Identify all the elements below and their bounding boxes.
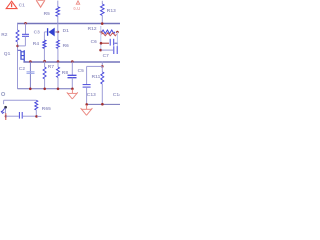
label R13: [107, 8, 116, 14]
capacitor C16 (bottom): [6, 112, 37, 119]
svg-text:R11: R11: [92, 74, 101, 80]
svg-text:R7: R7: [48, 64, 55, 70]
capacitor C6: [102, 39, 118, 46]
label R4: [33, 41, 40, 47]
resistor R8: [57, 62, 60, 89]
wire connector bottom drop: [5, 108, 7, 113]
svg-text:R13: R13: [107, 8, 116, 14]
svg-text:C14: C14: [113, 92, 120, 98]
ground (below rail C): [81, 105, 93, 115]
label R6: [63, 43, 70, 49]
svg-text:C13: C13: [87, 92, 96, 98]
svg-text:C2: C2: [19, 66, 26, 72]
resistor R13: [101, 1, 105, 24]
label D1: [63, 28, 70, 34]
wire rail A to D1: [57, 23, 59, 32]
wire rail C (bottom right): [87, 103, 120, 105]
svg-text:R6: R6: [63, 43, 70, 49]
capacitor C2: [27, 62, 35, 89]
wire connector left drop: [3, 100, 5, 104]
resistor R2 vertical: [16, 23, 19, 50]
svg-text:R12: R12: [88, 26, 97, 32]
resistor R12 (blue): [102, 30, 115, 34]
svg-text:C6: C6: [91, 39, 98, 45]
wire faint bus right: [116, 32, 118, 47]
wire faint bus left: [100, 26, 102, 50]
power symbol (small red up arrow): [76, 1, 79, 4]
resistor R12 highlight (red): [102, 33, 117, 36]
svg-text:C5: C5: [78, 68, 85, 74]
wire rail B (middle): [23, 61, 120, 63]
net label C1: [19, 3, 26, 9]
capacitor C7: [101, 46, 117, 54]
node rail B / C5: [71, 60, 74, 63]
node C6 left: [100, 42, 103, 45]
svg-text:R65: R65: [42, 106, 51, 112]
node R65 bottom: [35, 115, 38, 118]
resistor R6: [56, 32, 59, 62]
node R11 top: [101, 65, 104, 68]
resistor R11: [101, 66, 104, 104]
wire rail B2 (lower left): [18, 88, 73, 90]
svg-text:C7: C7: [103, 53, 110, 59]
node gate junction: [16, 45, 19, 48]
label R65: [42, 106, 51, 112]
connector pin circle: [1, 92, 4, 95]
label C14: [113, 92, 122, 98]
label C3: [34, 30, 41, 36]
label C5: [78, 68, 85, 74]
node B2 / C2: [29, 88, 32, 91]
power symbol (red down arrow): [36, 0, 45, 7]
wire diode stub left: [44, 31, 46, 33]
wire rail A (top): [17, 23, 120, 25]
wire stub to C13: [87, 65, 103, 67]
label Q1: [4, 51, 11, 57]
label C6: [91, 39, 98, 45]
wire connector top: [4, 99, 37, 101]
ground (below C5): [67, 89, 78, 99]
node B2 / C5: [71, 88, 74, 91]
resistor R4: [43, 32, 46, 61]
switch lever: [1, 108, 5, 113]
power symbol VCC (red triangle): [6, 1, 17, 8]
node R12 left: [100, 31, 103, 34]
svg-text:0.U: 0.U: [73, 6, 80, 11]
diode D1: [48, 28, 58, 37]
node D1 cathode: [57, 31, 60, 34]
capacitor C13: [83, 66, 91, 104]
node rail C / R11: [101, 103, 104, 106]
label R2: [1, 32, 8, 38]
svg-text:C3: C3: [34, 30, 41, 36]
node B2 / R7: [43, 88, 46, 91]
svg-text:C1: C1: [19, 3, 26, 9]
svg-text:R5: R5: [44, 11, 51, 17]
node C3 top: [24, 22, 27, 25]
label C2: [19, 66, 26, 72]
wire rail B to R11: [101, 62, 103, 67]
label R7: [48, 64, 55, 70]
svg-text:R4: R4: [33, 41, 40, 47]
node C7 left: [99, 49, 102, 52]
svg-text:Q1: Q1: [4, 51, 11, 57]
wire Q1 source to rail B: [24, 61, 26, 63]
node rail B / C2: [29, 60, 32, 63]
wire Q1 left leg: [17, 50, 19, 88]
node red joint: [5, 115, 7, 117]
node rail B / R4: [43, 60, 46, 63]
node R13 bottom: [101, 22, 104, 25]
red net text: [73, 6, 80, 11]
node rail B / R6: [57, 60, 60, 63]
label R8: [62, 70, 69, 76]
resistor R5: [56, 1, 60, 24]
label R11: [92, 74, 101, 80]
connector contact dot: [4, 106, 7, 109]
node rail C left: [85, 103, 88, 106]
node R12 right: [116, 31, 119, 34]
capacitor C5: [68, 62, 77, 89]
resistor R7: [43, 61, 46, 89]
label R5: [44, 11, 51, 17]
resistor R65: [35, 100, 38, 116]
svg-text:D1: D1: [63, 28, 70, 34]
label C7: [103, 53, 110, 59]
svg-text:R8: R8: [62, 70, 69, 76]
wire red segment (bottom left): [5, 113, 7, 120]
label R12: [88, 26, 97, 32]
transistor Q1 (MOSFET): [18, 50, 25, 62]
svg-text:R2: R2: [1, 32, 8, 38]
capacitor C3: [18, 23, 29, 46]
node B2 / R8: [57, 88, 60, 91]
label C13: [87, 92, 96, 98]
wire stub right: [37, 115, 41, 117]
